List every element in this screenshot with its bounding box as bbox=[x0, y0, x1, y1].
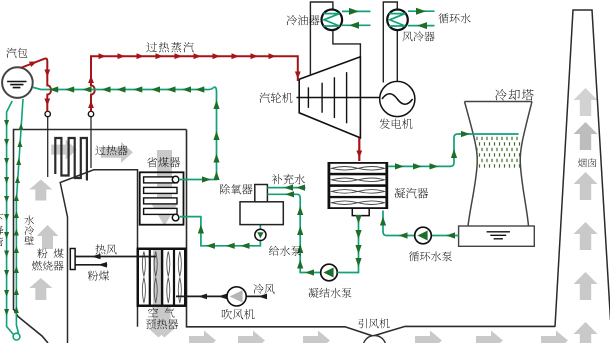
superheater outlet stub bbox=[90, 117, 92, 169]
air preheater box bbox=[138, 249, 186, 306]
superheater coil bbox=[55, 138, 87, 181]
red arrow into turbine bbox=[295, 72, 301, 80]
duct from turbine to oil cooler bbox=[310, 2, 360, 75]
arrow on econ outlet horizontal bbox=[202, 176, 211, 182]
economizer box bbox=[140, 172, 184, 224]
condenser hotwell bbox=[352, 209, 369, 216]
spray rain in tower bbox=[477, 137, 520, 168]
label hot air bbox=[96, 244, 117, 254]
oil cooler bbox=[322, 9, 343, 30]
label steam turbine bbox=[259, 93, 292, 103]
flue gas right arrow in duct 5 bbox=[476, 331, 503, 348]
oil cooler water outlet bbox=[342, 10, 371, 12]
flue gas up arrow in chimney 2 bbox=[574, 122, 598, 150]
flue gas right arrow in duct 1 bbox=[189, 331, 216, 348]
label generator bbox=[379, 119, 412, 129]
header node circle left bbox=[45, 111, 50, 116]
oil cooler water inlet bbox=[342, 24, 371, 26]
blower (forced draft fan) bbox=[227, 287, 246, 306]
label cooling tower bbox=[495, 89, 534, 101]
steam drum bbox=[2, 67, 33, 98]
flue gas up arrow in chimney 5 bbox=[574, 272, 598, 300]
flue gas right arrow at superheater bbox=[51, 139, 76, 159]
lower header bbox=[13, 333, 20, 340]
feedwater header line economizer to drum bbox=[33, 87, 214, 89]
label feed pump bbox=[269, 246, 301, 256]
boiler right wall and flue duct top edge bbox=[187, 130, 556, 337]
flue gas down arrow through economizer bbox=[151, 150, 179, 226]
label circulating water pump bbox=[409, 251, 452, 261]
label air cooler bbox=[402, 31, 434, 41]
label induced draft fan bbox=[358, 319, 389, 329]
economizer coil tube bbox=[144, 177, 177, 183]
feed pump bbox=[255, 229, 266, 240]
condenser circ water outlet to tower bbox=[388, 134, 518, 166]
condensate line to deaerator bbox=[267, 194, 320, 272]
label superheater bbox=[95, 145, 127, 155]
condensate line hotwell to pump bbox=[337, 216, 358, 273]
economizer inlet circle bbox=[172, 214, 179, 221]
turbine shaft bbox=[297, 97, 380, 99]
label makeup water bbox=[272, 174, 305, 185]
deaerator dome bbox=[255, 185, 268, 202]
label water wall (vertical) bbox=[24, 215, 34, 245]
label condenser bbox=[395, 188, 429, 199]
cooling tower shell bbox=[465, 102, 533, 227]
cold air line to air preheater bbox=[176, 295, 227, 297]
header node circle right bbox=[88, 111, 93, 116]
chimney bbox=[555, 10, 610, 327]
drum water level symbol bbox=[7, 82, 26, 88]
label deaerator bbox=[220, 184, 253, 194]
label downcomer (vertical, clipped) bbox=[0, 214, 4, 247]
air cooler bbox=[387, 9, 408, 30]
condensate pump bbox=[321, 264, 338, 281]
furnace nose and economizer shaft wall bbox=[60, 170, 137, 343]
label condensate pump bbox=[309, 288, 352, 298]
burner box bbox=[70, 249, 75, 270]
air cooler water inlet bbox=[408, 25, 435, 27]
red main steam line from superheater to turbine bbox=[91, 56, 298, 111]
flue gas right arrow in duct 2 bbox=[238, 331, 265, 348]
flue gas up arrow 3 in furnace bbox=[29, 278, 52, 300]
condenser tube rows bbox=[330, 164, 385, 173]
flue gas right arrow behind superheater label bbox=[101, 142, 133, 163]
label air preheater bbox=[148, 308, 175, 318]
label blower bbox=[222, 309, 255, 319]
flue gas up arrow in chimney 1 bbox=[574, 88, 598, 116]
induced draft fan bbox=[363, 336, 386, 348]
makeup water line bbox=[267, 187, 305, 189]
duct from generator to air cooler bbox=[383, 2, 397, 83]
flue gas right arrow in duct 4 bbox=[415, 331, 442, 348]
flue gas right arrow in duct 6 bbox=[541, 331, 568, 348]
label cold air bbox=[254, 284, 275, 294]
label coal bbox=[88, 271, 109, 281]
label pulverized coal burner bbox=[37, 249, 63, 259]
downcomer drum to lower header bbox=[7, 101, 15, 336]
flue gas up arrow in chimney 6 bbox=[574, 322, 598, 348]
economizer outlet circle bbox=[172, 176, 179, 183]
flue gas up arrow in chimney 3 bbox=[574, 172, 598, 200]
feedwater line pump to economizer bbox=[180, 217, 260, 246]
turbine stage lines bbox=[308, 72, 346, 123]
flue gas up arrow in chimney 4 bbox=[574, 222, 598, 250]
deaerator tank bbox=[240, 202, 283, 225]
air preheater gray arrow overlay bbox=[148, 250, 170, 338]
red saturated steam line drum to superheater header bbox=[21, 59, 52, 112]
condenser box bbox=[328, 162, 389, 209]
air preheater column separators bbox=[150, 249, 174, 306]
label economizer bbox=[147, 157, 180, 167]
generator bbox=[380, 81, 415, 116]
turbine bbox=[299, 57, 360, 138]
superheater inlet stub from drum header bbox=[47, 117, 49, 178]
air cooler water outlet bbox=[408, 10, 435, 12]
coal line to burner bbox=[76, 264, 108, 266]
hot air line to burner bbox=[76, 256, 157, 258]
basin water level symbol bbox=[487, 232, 510, 239]
economizer outlet riser bbox=[180, 87, 217, 179]
waterwall riser header to drum bbox=[16, 99, 23, 334]
label chimney bbox=[578, 158, 596, 167]
air preheater baskets bbox=[142, 252, 181, 304]
circulating water pump bbox=[415, 227, 432, 244]
circulating water return basin to condenser bbox=[383, 211, 459, 236]
label superheated steam bbox=[146, 42, 193, 52]
flue gas right arrow in duct 3 bbox=[303, 331, 330, 348]
cold air inlet line bbox=[246, 295, 265, 297]
label steam drum bbox=[6, 48, 27, 58]
label circulating water bbox=[438, 13, 470, 23]
cooling tower basin bbox=[459, 226, 535, 246]
boiler outer wall bbox=[14, 130, 187, 311]
boiler hopper bottom left bbox=[14, 309, 49, 343]
flue gas down arrow below air preheater bbox=[154, 258, 176, 338]
red turbine exhaust to condenser bbox=[358, 138, 360, 161]
flue gas up arrow 1 in furnace bbox=[29, 180, 52, 201]
label oil cooler bbox=[287, 15, 320, 25]
flue gas up arrow 2 in furnace bbox=[37, 225, 59, 249]
